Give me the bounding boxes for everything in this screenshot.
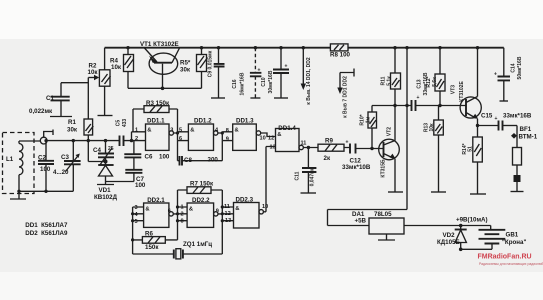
capacitor C5 (series)	[116, 119, 129, 146]
svg-text:КТ3102Е: КТ3102Е	[459, 80, 465, 101]
svg-text:50мк*16В: 50мк*16В	[517, 56, 523, 79]
svg-text:C9 0,015мк: C9 0,015мк	[208, 50, 214, 77]
svg-text:R1: R1	[68, 119, 76, 126]
resistor R14*	[462, 137, 482, 194]
svg-text:КВ102Д: КВ102Д	[94, 194, 118, 201]
svg-text:100: 100	[135, 182, 146, 189]
svg-text:8: 8	[226, 128, 229, 134]
svg-text:C5: C5	[116, 120, 122, 127]
svg-text:+: +	[285, 64, 288, 70]
svg-text:+5В: +5В	[355, 218, 367, 225]
wire DD1.3 out to DD1.4 pin 12	[260, 133, 276, 142]
svg-text:C15: C15	[481, 113, 493, 120]
svg-text:DD2.1: DD2.1	[147, 197, 165, 204]
wire top +5V rail	[105, 46, 504, 49]
svg-text:100: 100	[159, 154, 170, 161]
node +9V	[456, 217, 488, 252]
svg-text:2: 2	[181, 211, 184, 217]
sounder BF1 ВТМ-1	[511, 126, 538, 192]
svg-text:VT2: VT2	[387, 127, 393, 136]
wire bottom return bus	[17, 190, 73, 193]
voltage regulator DA1 78L05	[328, 48, 491, 240]
ground (R13)	[431, 191, 446, 193]
svg-text:300: 300	[208, 157, 219, 164]
node DD1.1 out / DD1.2 in	[174, 131, 189, 140]
gate DD1.1	[135, 117, 174, 150]
svg-text:КД105Б: КД105Б	[437, 239, 461, 246]
capacitor C14	[494, 48, 523, 101]
svg-text:51: 51	[468, 146, 474, 152]
svg-text:2: 2	[135, 136, 138, 142]
svg-text:VT1 КТ3102Е: VT1 КТ3102Е	[140, 41, 179, 48]
svg-text:C2: C2	[38, 155, 46, 162]
svg-text:&: &	[189, 207, 193, 213]
svg-text:5,1к: 5,1к	[386, 76, 392, 86]
capacitor C16 (dashed optional)	[232, 48, 261, 98]
resistor R9	[303, 138, 350, 163]
capacitor C4 (trimmer)	[93, 141, 114, 166]
gate DD2.3	[224, 197, 268, 229]
svg-text:C14: C14	[511, 63, 517, 72]
svg-text:+9В(10мА): +9В(10мА)	[456, 217, 488, 224]
node DD2.1 out	[173, 190, 187, 240]
ground (BF1)	[511, 191, 524, 193]
svg-text:10: 10	[260, 136, 266, 142]
capacitor C2	[38, 141, 54, 192]
svg-text:4...20: 4...20	[53, 169, 69, 176]
svg-text:13: 13	[225, 218, 231, 224]
svg-text:C6: C6	[145, 154, 153, 161]
svg-text:13: 13	[270, 145, 276, 151]
svg-text:12: 12	[225, 211, 231, 217]
resistor R2 (tuning potentiometer)	[88, 48, 113, 116]
resistor R12*	[426, 48, 445, 106]
svg-text:2к: 2к	[324, 155, 331, 162]
svg-text:+: +	[346, 140, 349, 146]
svg-text:10к: 10к	[111, 64, 122, 71]
chip list note	[25, 222, 68, 237]
inductor L1	[6, 141, 40, 191]
node to pin 14 stub	[301, 48, 312, 105]
resistor R5*	[180, 48, 207, 89]
svg-text:к Выв 7 DD1 DD2: к Выв 7 DD1 DD2	[343, 76, 349, 118]
svg-text:6: 6	[168, 209, 171, 215]
svg-text:100: 100	[40, 166, 51, 173]
capacitor C13 (series)	[412, 72, 430, 111]
svg-text:C16: C16	[232, 79, 238, 88]
svg-text:VT3: VT3	[451, 85, 457, 94]
svg-text:R6: R6	[145, 231, 153, 238]
svg-text:12: 12	[268, 136, 274, 142]
svg-text:VD2: VD2	[443, 232, 456, 239]
capacitor C7	[125, 170, 146, 189]
gate DD1.4	[270, 125, 307, 152]
transistor VT3 КТ3102Е	[451, 48, 482, 137]
svg-text:8: 8	[181, 218, 184, 224]
svg-text:&: &	[190, 128, 194, 134]
svg-text:C11: C11	[295, 171, 301, 180]
svg-text:5,6к: 5,6к	[432, 77, 438, 87]
svg-text:&: &	[145, 207, 149, 213]
capacitor C9	[208, 48, 226, 98]
wire DD2.1 input bus	[131, 207, 144, 254]
antenna jack	[40, 130, 53, 145]
svg-text:10: 10	[262, 204, 268, 210]
svg-text:C13: C13	[417, 79, 423, 88]
resistor R6	[133, 231, 178, 251]
svg-text:ВТМ-1: ВТМ-1	[519, 134, 538, 141]
transistor VT2 КТ315Б	[370, 106, 399, 192]
svg-text:+: +	[494, 72, 497, 78]
svg-text:DD2.2: DD2.2	[192, 197, 210, 204]
node to pin 7 stub (ground)	[337, 69, 354, 118]
svg-text:9: 9	[226, 136, 229, 142]
svg-text:5: 5	[135, 219, 138, 225]
svg-text:DD1 К561ЛА7: DD1 К561ЛА7	[25, 222, 68, 229]
resistor R8 (series in rail)	[330, 44, 351, 59]
svg-text:DD2 К561ЛА9: DD2 К561ЛА9	[25, 230, 68, 237]
wire VT1 emitter bus	[128, 87, 202, 91]
resistor R10*	[360, 106, 377, 149]
node DD1.2 out / DD1.3 in	[218, 131, 233, 140]
wire main RF bus	[44, 139, 145, 142]
svg-text:DD1.3: DD1.3	[236, 118, 254, 125]
wire DD2.3 out up to DD1.4 pin 13	[266, 147, 276, 212]
capacitor C8	[178, 141, 223, 166]
svg-text:11: 11	[301, 141, 307, 147]
svg-text:BF1: BF1	[520, 126, 532, 133]
svg-text:6: 6	[179, 136, 182, 142]
svg-text:КТ315Б: КТ315Б	[381, 159, 387, 178]
svg-text:DD1.4: DD1.4	[278, 125, 296, 132]
dashed magnetic antenna box	[3, 133, 35, 194]
resistor R3 (feedback DD1.1)	[133, 100, 178, 133]
capacitor C12	[342, 140, 384, 172]
svg-text:C8: C8	[184, 157, 192, 164]
svg-text:C10: C10	[261, 77, 267, 86]
svg-text:R3 150к: R3 150к	[146, 100, 170, 107]
svg-text:3: 3	[170, 128, 173, 134]
svg-text:33мк*16В: 33мк*16В	[503, 113, 532, 120]
node DD2.2 out / DD2.3 in	[218, 205, 234, 254]
svg-text:R9: R9	[325, 138, 333, 145]
svg-text:433: 433	[122, 119, 128, 128]
svg-text:1: 1	[135, 128, 138, 134]
wire DD2.3 out	[263, 211, 266, 213]
svg-text:+: +	[495, 116, 498, 122]
watermark	[478, 254, 543, 267]
resistor R7 (feedback DD2.2)	[178, 180, 223, 207]
svg-text:R8 100: R8 100	[330, 52, 351, 59]
svg-text:150к: 150к	[145, 244, 159, 251]
gate DD1.2	[179, 117, 219, 150]
svg-text:30к: 30к	[180, 67, 191, 74]
svg-text:10к: 10к	[88, 69, 99, 76]
svg-text:"Крона": "Крона"	[502, 239, 526, 246]
crystal ZQ1 1мГц	[133, 241, 223, 259]
svg-text:Радиосхемы для начинающих р: Радиосхемы для начинающих радиолюбителей	[479, 262, 543, 266]
svg-text:3: 3	[135, 205, 138, 211]
battery GB1 Крона	[461, 226, 527, 250]
svg-text:+: +	[417, 95, 420, 101]
svg-text:33мк*10В: 33мк*10В	[342, 164, 371, 171]
svg-text:10к: 10к	[429, 123, 435, 132]
svg-text:&: &	[235, 206, 239, 212]
resistor R4	[110, 48, 134, 89]
svg-text:30мк*16В: 30мк*16В	[268, 70, 274, 93]
svg-text:VD1: VD1	[99, 187, 112, 194]
svg-text:0,022мк: 0,022мк	[29, 108, 53, 115]
svg-text:DD1.2: DD1.2	[194, 117, 212, 124]
transistor VT1 КТ3102Е	[140, 41, 180, 88]
ground (L1)	[10, 191, 26, 199]
svg-text:FMRadioFan.RU: FMRadioFan.RU	[478, 254, 532, 261]
capacitor C6	[124, 141, 170, 170]
svg-text:+: +	[258, 68, 261, 74]
svg-text:11: 11	[224, 204, 230, 210]
resistor R11	[381, 48, 401, 106]
ground (VT2 emitter)	[388, 191, 403, 193]
svg-text:C4: C4	[93, 147, 101, 154]
diode VD1 varicap КВ102Д	[94, 162, 118, 202]
svg-text:DD1.1: DD1.1	[147, 117, 165, 124]
capacitor C10	[261, 48, 289, 98]
svg-text:&: &	[277, 132, 281, 138]
wire VT3 emitter to C15	[476, 124, 499, 127]
wire signal VT2 collector to VT3 base	[372, 104, 466, 107]
resistor R13	[424, 106, 444, 192]
wire C7 bottom to VD1 ground node	[106, 181, 134, 183]
svg-text:C3: C3	[61, 154, 69, 161]
svg-text:C1: C1	[46, 95, 54, 102]
svg-text:16мк*16В: 16мк*16В	[240, 72, 246, 95]
svg-text:25: 25	[108, 146, 114, 152]
svg-text:R7 150к: R7 150к	[190, 180, 214, 187]
ground (R14)	[470, 193, 486, 195]
gate DD1.3	[226, 118, 261, 151]
gate DD2.1	[135, 197, 174, 227]
svg-text:R5*: R5*	[180, 60, 191, 67]
svg-text:&: &	[147, 128, 151, 134]
capacitor C3 (trimmer)	[53, 141, 81, 192]
svg-text:30к: 30к	[67, 127, 78, 134]
svg-text:DD2.3: DD2.3	[236, 197, 254, 204]
wire DD1.1 inputs	[132, 132, 146, 141]
svg-text:L1: L1	[6, 156, 14, 163]
svg-text:&: &	[235, 128, 239, 134]
gate DD2.2	[181, 197, 219, 227]
svg-text:0,047мк: 0,047мк	[310, 167, 316, 186]
svg-text:к Выв. 14 DD1, DD2: к Выв. 14 DD1, DD2	[306, 57, 312, 105]
svg-text:1: 1	[181, 204, 184, 210]
capacitor C15	[481, 113, 532, 131]
svg-text:1м: 1м	[366, 116, 372, 123]
svg-text:ZQ1 1мГц: ZQ1 1мГц	[183, 241, 212, 248]
svg-text:5: 5	[179, 128, 182, 134]
capacitor C1	[29, 83, 88, 117]
svg-text:78L05: 78L05	[374, 211, 392, 218]
resistor R1	[67, 78, 108, 164]
diode VD2 КД105Б	[437, 226, 467, 250]
svg-text:GB1: GB1	[506, 232, 519, 239]
capacitor C11	[295, 146, 317, 193]
